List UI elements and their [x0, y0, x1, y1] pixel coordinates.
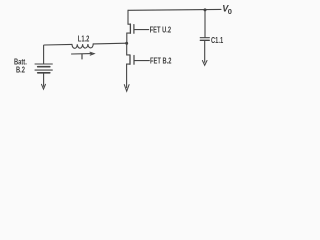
svg-text:B.2: B.2 — [16, 67, 25, 75]
svg-text:0: 0 — [228, 7, 232, 16]
svg-text:L1.2: L1.2 — [78, 36, 90, 44]
svg-text:C1.1: C1.1 — [211, 37, 223, 45]
svg-text:FET U.2: FET U.2 — [150, 27, 172, 35]
svg-text:FET B.2: FET B.2 — [150, 58, 172, 66]
svg-text:Batt.: Batt. — [14, 59, 27, 67]
